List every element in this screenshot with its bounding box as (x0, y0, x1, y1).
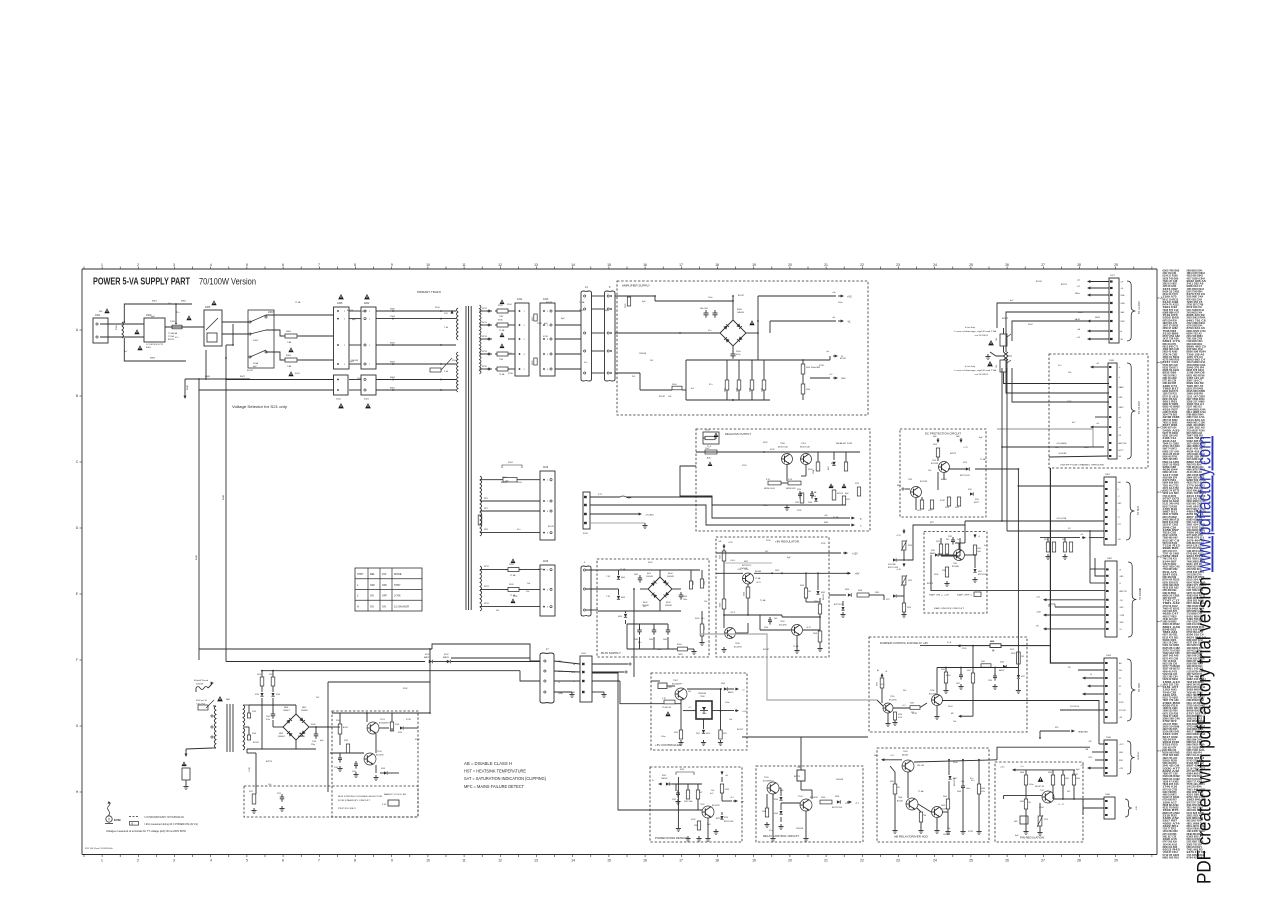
svg-text:6210: 6210 (812, 496, 816, 498)
svg-text:10k: 10k (527, 583, 530, 585)
run cap 2402 (679, 594, 684, 596)
svg-text:6309: 6309 (721, 683, 725, 685)
trafo tap arrow 16V (451, 312, 453, 315)
svg-text:2404: 2404 (649, 639, 653, 641)
svg-text:6103: 6103 (255, 694, 259, 696)
svg-text:YEL-GN: YEL-GN (917, 765, 925, 767)
line filter coil 5001 (122, 322, 124, 338)
svg-text:TO SSB: TO SSB (1138, 683, 1141, 692)
pin reg rail (1016, 769, 1075, 771)
svg-text:1N4007: 1N4007 (283, 710, 290, 712)
group2 taps (480, 500, 540, 502)
svg-text:1N4148: 1N4148 (665, 605, 672, 607)
svg-text:6307: 6307 (744, 561, 748, 563)
standby trafo secondary winding upper (243, 705, 245, 726)
connector 4002 (361, 307, 376, 369)
svg-text:6202: 6202 (680, 769, 684, 771)
fuse group3 b (506, 588, 508, 590)
svg-text:10: 10 (426, 859, 430, 863)
svg-text:SAOR: SAOR (1095, 316, 1101, 319)
wire -12V (1098, 700, 1100, 744)
amp supply mid rail (757, 333, 759, 360)
svg-text:2101: 2101 (266, 716, 270, 718)
svg-text:3017: 3017 (928, 510, 932, 512)
svg-text:5001: 5001 (116, 324, 118, 330)
svg-text:10k: 10k (526, 591, 529, 593)
mains filter unit 1002 (144, 318, 165, 342)
svg-text:BC548B: BC548B (952, 566, 959, 568)
DC PROTECTION dashed box (900, 429, 986, 517)
svg-text:T1.6A: T1.6A (760, 599, 766, 602)
damper diode 6206 (1003, 665, 1006, 668)
svg-text:TO CS AMP: TO CS AMP (1138, 401, 1141, 414)
sense chain varistor 1 (902, 541, 906, 550)
svg-text:12: 12 (498, 263, 502, 267)
svg-text:OT1: OT1 (1118, 524, 1122, 526)
svg-text:22: 22 (860, 263, 864, 267)
svg-text:3225: 3225 (908, 580, 912, 582)
svg-text:3221: 3221 (830, 486, 834, 488)
svg-text:6202: 6202 (978, 571, 982, 573)
wire to power down from top (618, 677, 650, 810)
damper sense vertical (972, 646, 974, 673)
connector 1077 stub wires (1089, 281, 1091, 283)
warning triangle fuse (186, 315, 191, 320)
reg zener to ground (842, 601, 844, 606)
wire loop inner (1012, 321, 1109, 341)
sense chain arrow 2 (903, 563, 905, 566)
svg-text:2507: 2507 (737, 388, 739, 392)
svg-text:H B: H B (1136, 806, 1138, 810)
connector 1094 (1104, 658, 1117, 723)
svg-text:100n: 100n (661, 736, 665, 738)
svg-text:8948: 8948 (223, 494, 225, 500)
svg-text:ON: ON (370, 595, 374, 598)
svg-text:3504: 3504 (750, 388, 752, 392)
svg-text:2209: 2209 (988, 680, 992, 682)
svg-text:7004: 7004 (390, 316, 396, 318)
svg-text:3204: 3204 (875, 682, 877, 686)
svg-text:14: 14 (571, 859, 575, 863)
pd input arrow (660, 783, 663, 785)
svg-text:BZX79: BZX79 (927, 583, 934, 585)
svg-text:470R: 470R (538, 569, 543, 571)
degauss main rail (696, 451, 860, 453)
svg-text:use VF119.02: use VF119.02 (975, 335, 989, 337)
ab cap 2004 (962, 760, 964, 783)
svg-text:7: 7 (318, 263, 320, 267)
amp wire top rail (655, 300, 733, 302)
svg-text:15: 15 (607, 859, 611, 863)
warning triangle group3 b (511, 598, 516, 603)
svg-text:27: 27 (1041, 263, 1045, 267)
wire from selector net down to standby (198, 649, 200, 660)
svg-text:47u: 47u (584, 362, 587, 364)
svg-text:3031: 3031 (508, 462, 514, 464)
svg-text:+4D: +4D (824, 515, 828, 517)
warning triangle selector fuse 2 (288, 371, 293, 376)
wires into J7 (451, 657, 530, 659)
svg-text:110A: 110A (253, 362, 258, 365)
svg-text:BC547B: BC547B (810, 797, 818, 799)
svg-text:GND: GND (558, 693, 563, 695)
svg-text:BC640: BC640 (897, 801, 903, 803)
svg-text:6681 650 R16: 6681 650 R16 (1163, 855, 1180, 859)
svg-text:47u: 47u (709, 384, 712, 386)
svg-text:BAS32: BAS32 (999, 669, 1004, 672)
svg-text:BD433: BD433 (755, 571, 762, 573)
thermal fuse crossing wires (1004, 352, 1009, 360)
trafo variable tap resistor 1.5k (430, 368, 441, 372)
wire +5V STB long (965, 520, 1104, 522)
svg-text:2311: 2311 (696, 733, 700, 735)
svg-text:use VF119.02: use VF119.02 (975, 374, 989, 376)
resistor pair 941 (939, 544, 942, 554)
svg-text:3202: 3202 (694, 825, 698, 827)
sub resistor 3104 (338, 724, 342, 734)
standby input wire from 1204 (620, 681, 664, 704)
svg-text:3019: 3019 (955, 507, 959, 509)
svg-text:BAV45: BAV45 (930, 552, 935, 555)
top ruler ticks (83, 267, 85, 270)
standby diodes 6103 6104 (261, 686, 263, 692)
bridge right node wire (746, 332, 758, 334)
svg-text:POWER 5-VA SUPPLY PART: POWER 5-VA SUPPLY PART (93, 277, 190, 288)
svg-text:3305: 3305 (704, 626, 706, 630)
svg-text:7502: 7502 (908, 479, 912, 481)
reg main rail +8 (716, 572, 743, 574)
warning triangle below 1010 (338, 403, 344, 408)
svg-text:3104: 3104 (252, 733, 256, 735)
connector 1025 (334, 307, 350, 369)
resistor 3300 horizontal (672, 386, 682, 390)
sense chain diode 1 (893, 558, 896, 561)
svg-text:10: 10 (426, 263, 430, 267)
bridge left node wire (680, 332, 720, 334)
connector 1014 (540, 303, 555, 376)
svg-text:4001: 4001 (364, 399, 370, 401)
amp right resistors (801, 364, 805, 374)
secondary series resistor 3104b (247, 735, 250, 740)
connector 14 rounded (581, 291, 592, 381)
svg-text:6804: 6804 (299, 733, 303, 735)
svg-text:2506: 2506 (762, 388, 764, 392)
sub transistor 7101 (367, 722, 379, 734)
svg-text:100n: 100n (845, 803, 849, 805)
relay coil box 1201 (797, 770, 805, 781)
kap resistor 3205 (973, 545, 976, 555)
svg-text:47u: 47u (971, 780, 974, 782)
svg-text:470R: 470R (940, 500, 945, 502)
svg-text:+1.4V: +1.4V (896, 569, 902, 571)
svg-text:MFC = MAINS FAILURE DETECT: MFC = MAINS FAILURE DETECT (464, 784, 524, 789)
svg-text:F5: F5 (1119, 678, 1121, 680)
svg-text:3506: 3506 (806, 389, 810, 391)
svg-text:SND: SND (841, 378, 846, 380)
svg-text:AMP ON: AMP ON (1120, 590, 1128, 593)
sense chain varistor 2 (902, 576, 906, 585)
svg-text:3903: 3903 (286, 355, 292, 357)
svg-text:T1.6A: T1.6A (499, 373, 505, 376)
reg mid rail (724, 614, 782, 616)
svg-text:BC547B: BC547B (929, 694, 937, 696)
svg-text:1N4148: 1N4148 (667, 576, 674, 578)
relay output arrow (847, 801, 851, 803)
wires fuses to connector 1011 (508, 310, 515, 312)
connector 1204 (580, 656, 592, 702)
svg-text:ON: ON (382, 605, 386, 608)
diode 6309 (724, 687, 727, 690)
svg-text:7102: 7102 (377, 751, 383, 753)
svg-text:BZX79C4V6: BZX79C4V6 (832, 807, 842, 809)
svg-text:1R5: 1R5 (996, 365, 998, 368)
pd pullup resistor (721, 777, 723, 782)
wires between rounded connectors (592, 295, 605, 297)
resistor cluster below 1087 (1040, 537, 1080, 539)
svg-text:13: 13 (534, 859, 538, 863)
svg-text:KAP-ON/OFF CIRCUIT: KAP-ON/OFF CIRCUIT (934, 607, 965, 610)
svg-text:3610: 3610 (1044, 539, 1048, 541)
connector 1096 (1104, 797, 1115, 819)
svg-text:OFF: OFF (370, 584, 375, 587)
svg-text:+2k: +2k (1096, 423, 1099, 425)
ab rail exit up (997, 747, 1090, 760)
svg-text:T1.6A: T1.6A (620, 568, 626, 571)
inter-connector resistor 3408 (534, 358, 537, 365)
dc prot arrows top (937, 438, 939, 442)
standby vertical right (720, 689, 722, 730)
svg-text:2207: 2207 (956, 683, 960, 685)
run right resistor 3305 (700, 624, 704, 636)
brace 1082 (1128, 562, 1136, 637)
svg-text:T1.6A: T1.6A (793, 645, 799, 648)
connector 1105 group3 (540, 565, 555, 616)
svg-text:70/100W Version: 70/100W Version (199, 277, 256, 287)
svg-text:3302: 3302 (742, 592, 744, 596)
run supply connector (581, 566, 591, 616)
svg-text:2405: 2405 (663, 639, 667, 641)
svg-text:102: 102 (1028, 802, 1031, 804)
KAP ON OFF dashed box (924, 532, 987, 613)
svg-text:1087: 1087 (1105, 474, 1111, 476)
standby vertical feeds (261, 671, 263, 677)
svg-text:BC547: BC547 (763, 649, 770, 651)
wire selector row3 (266, 352, 283, 360)
run lower rail (627, 648, 677, 650)
kap resistor 3204b (945, 567, 948, 577)
PIN REGULATION dashed box (995, 762, 1083, 842)
kap cap 2202 (951, 539, 955, 541)
pd resistor 3202 (697, 821, 700, 830)
pin reg output wire (1052, 785, 1054, 799)
reg resistor 3301 (723, 549, 725, 551)
standby bridge output cap 2108 (309, 726, 332, 728)
wire selector to connector row1 (266, 314, 333, 316)
kap zener 6202 (974, 555, 976, 568)
reg resistor 3303 left (722, 599, 726, 609)
svg-text:+O4: +O4 (1076, 337, 1080, 339)
svg-text:ON: ON (370, 605, 374, 608)
C120 wire (255, 753, 257, 792)
wires J7 to 1204 (554, 661, 580, 664)
svg-text:7200: 7200 (780, 443, 786, 445)
svg-text:BZX79: BZX79 (837, 493, 844, 495)
svg-text:3224: 3224 (908, 545, 912, 547)
svg-text:+12k: +12k (1036, 597, 1040, 599)
svg-text:20: 20 (788, 859, 792, 863)
svg-text:1103: 1103 (543, 466, 549, 469)
svg-text:6203: 6203 (724, 817, 728, 819)
standby input resistors 3101 3102 (260, 677, 264, 686)
svg-text:100n: 100n (725, 702, 729, 704)
+5V standby controller dashed box (651, 673, 747, 750)
svg-text:100n: 100n (966, 788, 970, 790)
wires 1204 to standby box (592, 663, 628, 665)
damper resistor 3204 (880, 678, 884, 688)
svg-text:+12V: +12V (728, 542, 733, 544)
svg-text:+8V: +8V (855, 573, 860, 576)
damper resistor 3205 (944, 672, 947, 683)
bridge bottom cap 2504 (732, 346, 734, 352)
svg-text:HST = HEATSINK TEMPERATURE: HST = HEATSINK TEMPERATURE (464, 769, 526, 774)
secondary taps group1 (480, 310, 493, 312)
svg-text:6310: 6310 (706, 733, 710, 735)
svg-text:1011: 1011 (517, 298, 523, 301)
svg-text:SC45: SC45 (898, 717, 902, 719)
damper MC stub (960, 715, 962, 717)
svg-text:VLD-DR: VLD-DR (1119, 710, 1126, 712)
pd diode 6201 (666, 782, 669, 785)
reg transistor 7303 (792, 625, 803, 636)
svg-text:BZX79: BZX79 (950, 453, 957, 455)
svg-text:1001: 1001 (95, 314, 101, 317)
svg-text:2205: 2205 (795, 502, 799, 504)
svg-text:+12V: +12V (852, 553, 858, 556)
sub resistor 3105 (346, 744, 349, 753)
standby trafo core (226, 704, 228, 752)
svg-text:24: 24 (933, 859, 937, 863)
svg-text:+1.2: +1.2 (902, 705, 906, 707)
svg-text:KAP OFF =: KAP OFF = (957, 594, 973, 597)
svg-text:GND: GND (1119, 752, 1124, 754)
svg-text:10k: 10k (928, 470, 931, 472)
warning triangle thermal 2 (987, 361, 993, 366)
DAMPER CONTROL dashed box (869, 637, 1027, 732)
ab input arrow (883, 759, 886, 761)
svg-text:T4A: T4A (287, 341, 292, 344)
degauss transistor 7200 (782, 454, 793, 465)
svg-text:STBY: STBY (394, 584, 401, 587)
warning triangle degauss fuse (714, 433, 719, 438)
svg-text:KAP ON = +5V: KAP ON = +5V (929, 594, 950, 597)
svg-text:1508: 1508 (1109, 360, 1115, 362)
standby bottom components (680, 699, 682, 730)
svg-text:6: 6 (282, 263, 284, 267)
damper transistor 7205 (883, 703, 893, 713)
svg-text:6804: 6804 (390, 377, 396, 379)
ab transistor 7004 (906, 798, 918, 810)
svg-text:17: 17 (679, 263, 683, 267)
svg-text:1N4148: 1N4148 (661, 778, 667, 780)
svg-text:AB = DISABLE CLASS H: AB = DISABLE CLASS H (464, 761, 512, 766)
svg-text:6862: 6862 (181, 301, 187, 303)
pin reg top arrow (1014, 769, 1017, 771)
bypass drop wire (175, 304, 177, 324)
svg-text:PRIMARY TRAFO: PRIMARY TRAFO (417, 290, 442, 294)
dc prot to damper vertical (1017, 469, 1019, 676)
bottom bypass wire 6863 (124, 338, 186, 361)
dc prot diode 6114 (966, 467, 969, 470)
svg-text:T1.6A: T1.6A (980, 458, 986, 461)
svg-text:2204: 2204 (813, 470, 815, 474)
warning triangle switch (211, 300, 216, 305)
damper resistor 3207 on sense vertical (971, 673, 974, 683)
svg-text:3226: 3226 (907, 607, 911, 609)
svg-text:9: 9 (391, 859, 393, 863)
warning triangle sec3 (500, 343, 505, 348)
svg-text:68R56 0R5: 68R56 0R5 (786, 488, 796, 490)
svg-text:CNX62A: CNX62A (698, 692, 706, 695)
svg-text:+8: +8 (573, 664, 575, 666)
svg-text:-VL: -VL (847, 321, 851, 324)
svg-text:26: 26 (1005, 263, 1009, 267)
svg-text:6M0: 6M0 (1014, 821, 1017, 823)
svg-text:6303: 6303 (845, 589, 849, 591)
sub feed vertical (327, 682, 329, 792)
svg-text:+7.7V: +7.7V (963, 447, 969, 449)
svg-text:470R: 470R (819, 365, 824, 367)
svg-text:BZX79: BZX79 (716, 818, 723, 820)
reg control transistor 7306 (725, 628, 736, 639)
svg-text:1R5: 1R5 (1021, 656, 1024, 658)
svg-text:AC/47: AC/47 (343, 726, 348, 729)
warning triangle sec1 (500, 299, 505, 304)
elko capacitor 2501 (713, 312, 718, 314)
standby wires (651, 680, 660, 682)
svg-text:T1.6A: T1.6A (811, 491, 817, 494)
svg-text:5: 5 (246, 859, 248, 863)
svg-text:6206: 6206 (835, 796, 839, 798)
EVM probe symbol (106, 816, 112, 822)
svg-text:4: 4 (210, 859, 212, 863)
svg-text:3201 100k: 3201 100k (684, 801, 692, 803)
svg-text:7501: 7501 (932, 460, 936, 462)
svg-text:10k: 10k (961, 781, 964, 783)
svg-text:T1.6A: T1.6A (579, 301, 585, 304)
fuse group3 a (506, 569, 508, 571)
relay wires (779, 787, 781, 789)
diode 6131 BAV21 (429, 660, 433, 664)
svg-text:748: 748 (923, 815, 926, 817)
bridge feed wires (295, 705, 297, 714)
svg-text:3111 206 31xxx 17014191604x: 3111 206 31xxx 17014191604x (85, 848, 113, 850)
secondary series resistor 3103 (243, 705, 249, 713)
damper +8 arrow (881, 675, 883, 678)
svg-text:BC639/BD?: BC639/BD? (763, 781, 774, 783)
svg-text:T4A: T4A (287, 365, 292, 368)
svg-text:21: 21 (824, 859, 828, 863)
svg-text:470R: 470R (406, 719, 411, 721)
relay transistor 7203 (767, 782, 779, 794)
svg-text:3208: 3208 (762, 811, 766, 813)
svg-text:AMPLIFIER SUPPLY: AMPLIFIER SUPPLY (622, 284, 650, 288)
degauss caps lower (798, 493, 802, 495)
brace 1096 (1125, 799, 1132, 817)
svg-text:1096: 1096 (1105, 794, 1111, 796)
svg-text:HEADSEA: HEADSEA (1078, 731, 1088, 734)
svg-text:BC547B: BC547B (931, 463, 939, 465)
ab zener 6001 (948, 760, 950, 775)
